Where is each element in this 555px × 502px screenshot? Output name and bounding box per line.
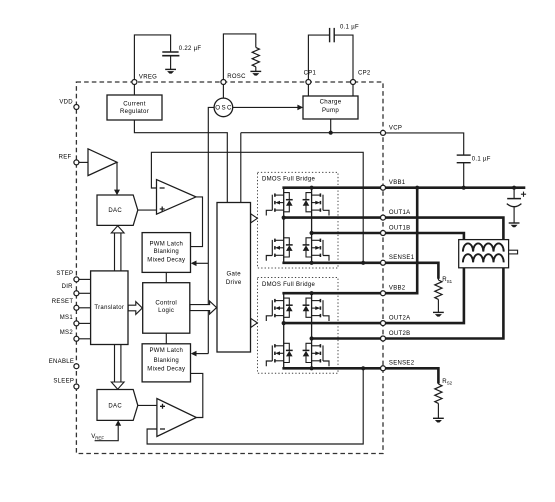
svg-text:MS1: MS1 <box>60 315 74 321</box>
svg-text:Charge: Charge <box>320 99 342 106</box>
svg-text:VCP: VCP <box>389 125 402 131</box>
svg-text:OUT1B: OUT1B <box>389 225 411 231</box>
svg-text:REF: REF <box>59 154 72 160</box>
svg-text:OUT2A: OUT2A <box>389 316 411 322</box>
svg-text:Pump: Pump <box>322 107 339 114</box>
svg-text:OSC: OSC <box>215 105 232 112</box>
svg-text:MS2: MS2 <box>60 330 74 336</box>
svg-text:DAC: DAC <box>108 404 122 410</box>
svg-text:ENABLE: ENABLE <box>49 359 74 365</box>
svg-text:Translator: Translator <box>94 305 124 311</box>
svg-text:Control: Control <box>155 300 177 307</box>
svg-text:DMOS Full Bridge: DMOS Full Bridge <box>262 177 316 183</box>
svg-text:PWM Latch: PWM Latch <box>149 242 183 248</box>
svg-text:Blanking: Blanking <box>154 358 179 364</box>
svg-text:Blanking: Blanking <box>154 249 179 255</box>
svg-text:VDD: VDD <box>59 100 73 106</box>
svg-text:Gate: Gate <box>226 270 241 277</box>
svg-text:STEP: STEP <box>56 271 73 277</box>
svg-text:OUT2B: OUT2B <box>389 331 411 337</box>
svg-text:DMOS Full Bridge: DMOS Full Bridge <box>262 282 316 288</box>
svg-text:VBB2: VBB2 <box>389 286 406 292</box>
svg-text:RESET: RESET <box>52 299 74 305</box>
svg-text:SLEEP: SLEEP <box>53 378 74 384</box>
svg-text:CP2: CP2 <box>358 71 371 77</box>
svg-text:VREG: VREG <box>139 75 157 81</box>
svg-text:Logic: Logic <box>158 307 174 314</box>
svg-text:Mixed Decay: Mixed Decay <box>147 258 185 264</box>
svg-text:CP1: CP1 <box>304 71 317 77</box>
svg-text:Drive: Drive <box>226 279 242 286</box>
svg-text:0.1 µF: 0.1 µF <box>472 156 491 162</box>
svg-text:SENSE2: SENSE2 <box>389 361 415 367</box>
svg-text:DAC: DAC <box>108 208 122 214</box>
svg-text:Current: Current <box>123 101 145 108</box>
svg-text:0.1 µF: 0.1 µF <box>340 24 359 30</box>
svg-text:0.22 µF: 0.22 µF <box>179 46 202 52</box>
svg-text:DIR: DIR <box>62 284 74 290</box>
svg-text:VBB1: VBB1 <box>389 180 406 186</box>
svg-text:OUT1A: OUT1A <box>389 210 411 216</box>
svg-text:ROSC: ROSC <box>227 74 246 80</box>
svg-text:Regulator: Regulator <box>120 108 149 115</box>
svg-text:SENSE1: SENSE1 <box>389 255 415 261</box>
svg-text:PWM Latch: PWM Latch <box>149 348 183 354</box>
svg-text:Mixed Decay: Mixed Decay <box>147 367 185 373</box>
